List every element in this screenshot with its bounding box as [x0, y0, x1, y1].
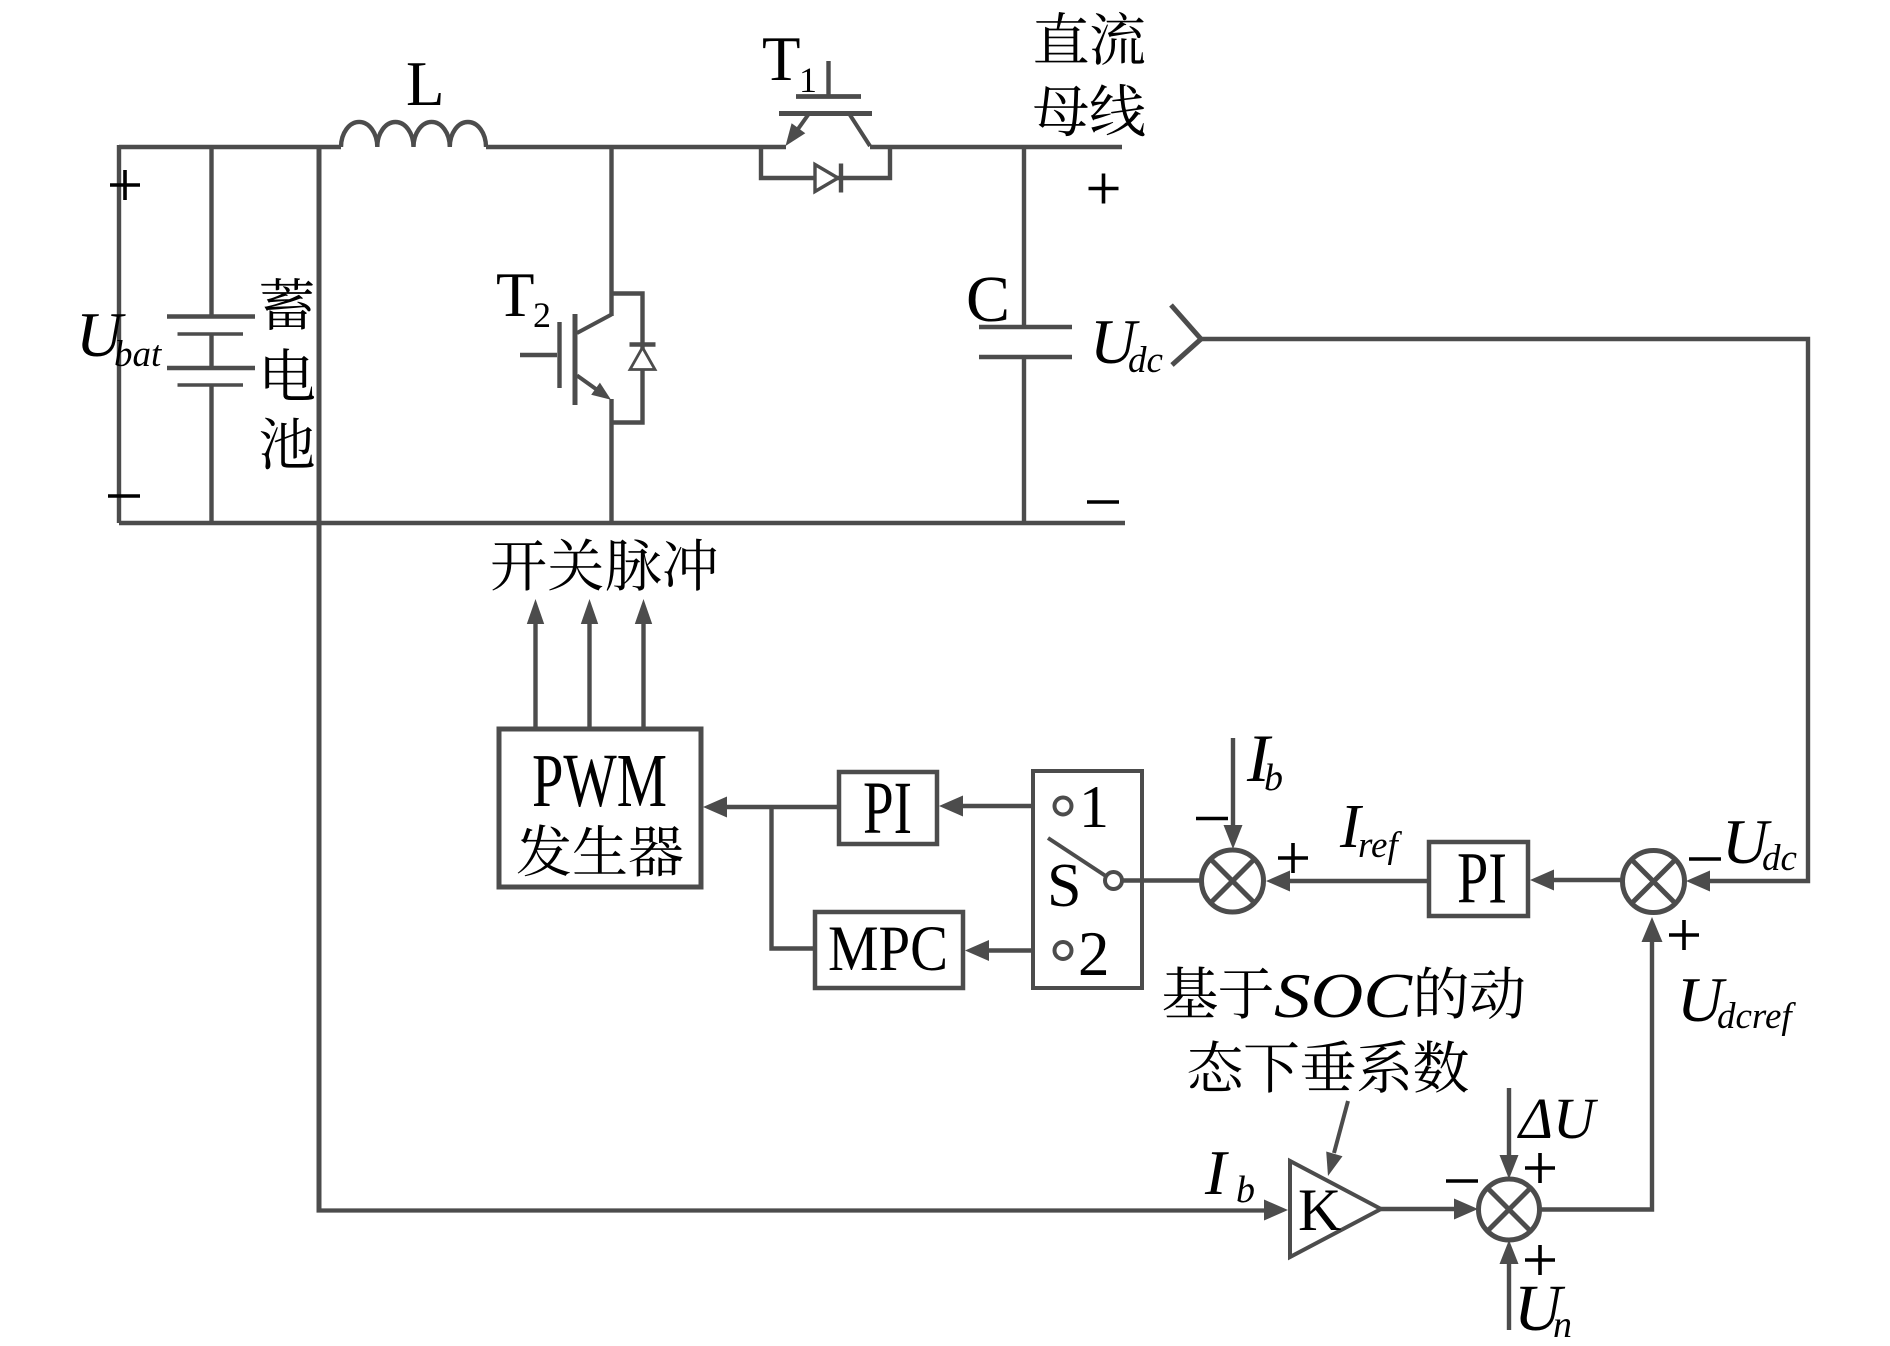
svg-text:n: n: [1553, 1304, 1572, 1346]
transistor T1 emitter arrow: [786, 115, 809, 146]
label minus at summing junction 1: [1196, 817, 1228, 821]
block PWM generator box: [499, 729, 701, 887]
transistor T2 emitter arrow: [577, 376, 611, 400]
transistor T1 collector lead: [850, 115, 870, 146]
svg-text:1: 1: [799, 60, 817, 100]
arrow U_dcref into summing junction 2: [1642, 917, 1663, 942]
label 基于SOC的动 (line 1): [1164, 960, 1524, 1031]
summing junction 1: [1202, 850, 1264, 912]
label terminal 1: [1079, 774, 1109, 840]
summing junction 3: [1479, 1179, 1540, 1240]
label plus at summing junction 1: [1278, 843, 1308, 873]
svg-text:b: b: [1264, 757, 1283, 799]
arrow from droop label to gain K: [1326, 1101, 1348, 1176]
label K: [1298, 1177, 1341, 1243]
arrow: gate pulse 3: [635, 599, 652, 729]
gain block K triangle: [1290, 1161, 1381, 1257]
wire: T2 branch column lower: [609, 399, 613, 523]
label MPC: [828, 913, 948, 985]
diode D1 symbol: [815, 164, 841, 193]
arrow: gate pulse 1: [527, 599, 544, 729]
wire: battery negative rail (bottom bus): [119, 521, 1125, 525]
wire: U_dc feedback to right edge and down: [1201, 339, 1808, 881]
label plus below summing junction 3: [1525, 1245, 1555, 1275]
arrow: gate pulse 2: [581, 599, 598, 729]
capacitor C bottom lead: [1022, 357, 1026, 523]
label 直流母线 (DC bus): [1034, 12, 1144, 136]
wire: top rail inductor to T1 emitter: [486, 145, 786, 149]
label I_b at summing junction 1: [1246, 720, 1283, 799]
label PI (voltage loop): [1457, 838, 1507, 919]
label I_b at gain K: [1204, 1137, 1255, 1211]
label minus at summing junction 3: [1446, 1179, 1478, 1183]
arrow I_b into summing junction 1: [1224, 738, 1243, 849]
capacitor C plates: [979, 327, 1072, 357]
svg-text:MPC: MPC: [828, 913, 948, 985]
arrow into MPC from switch terminal 2: [965, 940, 1054, 961]
arrow into PI 1 from switch terminal 1: [939, 796, 1054, 817]
wire: left drop to battery minus: [117, 145, 121, 523]
switch S pivot contact: [1105, 872, 1122, 889]
label DC bus plus sign: [1089, 174, 1119, 204]
label battery plus sign: [110, 170, 140, 200]
label 蓄电池 (storage battery): [261, 278, 314, 469]
label L: [406, 49, 444, 119]
switch terminal 1 contact: [1055, 798, 1072, 815]
label PWM: [532, 739, 667, 823]
capacitor C top lead: [1022, 147, 1026, 327]
summing junction 2: [1623, 851, 1685, 913]
wire: top rail T1 collector to DC bus: [870, 145, 1122, 149]
wire: junction to MPC output: [772, 807, 816, 949]
wire: I_b sense to gain K: [317, 1200, 1289, 1221]
label minus at summing junction 2: [1689, 857, 1721, 861]
switch S box: [1033, 771, 1142, 988]
wire: T2 branch column upper: [609, 147, 613, 316]
svg-text:I: I: [1204, 1137, 1229, 1208]
transistor T2 body bar: [573, 314, 578, 405]
label U_bat: [76, 299, 163, 375]
label I_ref: [1339, 793, 1402, 866]
svg-text:PWM: PWM: [532, 739, 667, 823]
wire: battery current sense line (I_b tap): [317, 147, 322, 1213]
block MPC controller box: [815, 912, 963, 988]
label battery minus sign: [108, 494, 140, 498]
svg-text:T: T: [496, 260, 534, 330]
svg-text:b: b: [1236, 1169, 1255, 1211]
block PI controller 1 box: [839, 772, 937, 844]
switch terminal 2 contact: [1055, 942, 1072, 959]
label U_dc at summing junction 2: [1722, 806, 1798, 879]
svg-text:1: 1: [1079, 774, 1109, 840]
svg-text:ΔU: ΔU: [1517, 1086, 1599, 1151]
svg-text:C: C: [966, 263, 1010, 336]
arrow into PWM from controllers: [703, 797, 839, 818]
transistor T2 gate bar: [557, 322, 561, 388]
svg-text:K: K: [1298, 1177, 1341, 1243]
arrow from PI 2 into summing junction 1: [1266, 871, 1429, 892]
arrow from K into summing junction 3: [1381, 1199, 1478, 1220]
label T1: [762, 24, 817, 100]
label C: [966, 263, 1010, 336]
label 开关脉冲 (switching pulses): [492, 538, 716, 590]
arrow delta-U into summing junction 3: [1500, 1088, 1519, 1179]
svg-text:dc: dc: [1762, 838, 1798, 879]
label U_dc at capacitor: [1090, 306, 1164, 381]
svg-text:SOC: SOC: [1274, 960, 1413, 1031]
label T2: [496, 260, 551, 335]
svg-text:T: T: [762, 24, 800, 94]
diode D1 bypass loop: [761, 147, 890, 178]
wire: battery positive rail (top-left): [119, 145, 341, 149]
battery U_bat cell plates: [167, 147, 255, 523]
label S: [1047, 852, 1081, 920]
svg-text:dcref: dcref: [1717, 996, 1796, 1037]
switch S lever: [1048, 838, 1107, 877]
diode D2 symbol: [630, 345, 656, 370]
label delta U: [1517, 1086, 1599, 1151]
label 发生器 (generator): [518, 824, 683, 876]
transistor T2 gate lead: [520, 353, 557, 357]
svg-text:S: S: [1047, 852, 1081, 920]
wire: switch pivot to summing junction 1: [1123, 878, 1202, 882]
diode D2 anti-parallel loop: [612, 294, 643, 423]
probe chevron for U_dc: [1171, 305, 1201, 365]
svg-text:bat: bat: [114, 334, 163, 375]
arrow into PI 2 from summing junction 2: [1530, 870, 1623, 891]
svg-text:ref: ref: [1358, 825, 1402, 866]
transistor T1 gate lead: [826, 61, 830, 95]
arrow U_n into summing junction 3: [1500, 1240, 1519, 1330]
label plus below summing junction 2: [1669, 920, 1699, 950]
inductor L winding: [341, 122, 486, 147]
block PI controller 2 box: [1429, 842, 1528, 916]
label 态下垂系数 (line 2): [1188, 1040, 1468, 1093]
label PI (current loop): [863, 767, 912, 850]
svg-text:PI: PI: [1457, 838, 1507, 919]
label U_dcref: [1677, 964, 1796, 1037]
svg-text:2: 2: [533, 295, 551, 335]
label terminal 2: [1078, 919, 1110, 989]
transistor T1 gate bar: [796, 94, 861, 99]
svg-text:L: L: [406, 49, 444, 119]
svg-text:PI: PI: [863, 767, 912, 850]
label DC bus minus sign: [1087, 500, 1119, 504]
arrow into summing junction 2 from U_dc: [1686, 871, 1710, 892]
transistor T2 collector lead: [577, 315, 612, 334]
label U_n: [1514, 1272, 1572, 1346]
label plus above summing junction 3: [1525, 1153, 1555, 1183]
wire: summing junction 3 output to U_dcref line: [1540, 940, 1653, 1210]
svg-text:dc: dc: [1128, 340, 1164, 381]
svg-text:2: 2: [1078, 919, 1110, 989]
transistor T1 body bar: [779, 111, 872, 116]
